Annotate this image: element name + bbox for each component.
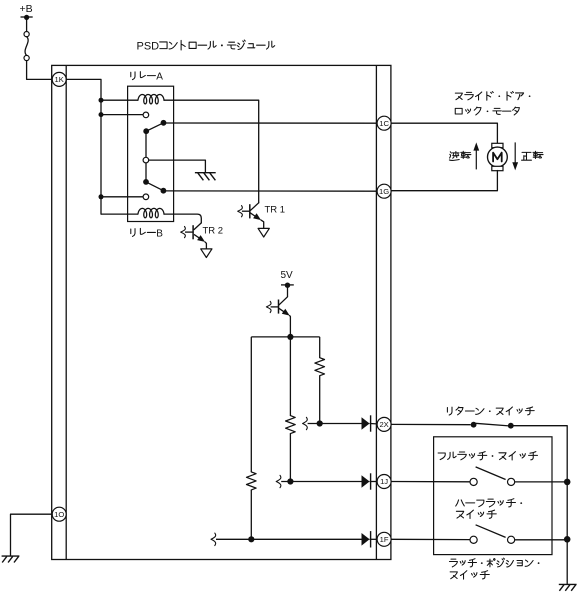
wire from 1K down left bus <box>66 79 101 214</box>
svg-text:5V: 5V <box>281 270 294 281</box>
forward label 正転 <box>522 152 532 160</box>
forward down arrow <box>514 142 516 163</box>
wire 5V to transistor <box>287 285 289 297</box>
wire 1J to full latch switch <box>391 481 470 483</box>
diode D3 <box>362 533 370 546</box>
relay A contact terminal <box>143 112 149 118</box>
svg-text:1J: 1J <box>380 477 388 486</box>
return switch label <box>447 407 452 415</box>
relay B label <box>131 229 135 237</box>
resistor R2 (middle branch) <box>289 337 291 416</box>
ground chassis bottom right <box>559 583 577 585</box>
wire to 1K <box>27 61 53 80</box>
node junction <box>99 112 104 117</box>
slide door lock motor label <box>455 93 462 100</box>
relay A movable arm <box>146 123 163 131</box>
relay B movable arm <box>146 182 163 191</box>
connector pin 1G <box>377 184 391 198</box>
wire to diode D3 <box>216 538 362 540</box>
half latch switch label <box>456 500 465 506</box>
transistor Q3 (unlabelled) <box>279 297 288 305</box>
svg-text:1C: 1C <box>379 119 389 128</box>
node junction <box>99 194 104 199</box>
return switch contact node <box>508 423 514 429</box>
svg-text:PSD: PSD <box>137 41 160 53</box>
wire half latch to rail <box>515 539 568 541</box>
wire pivot to 1C <box>164 122 378 124</box>
ground chassis inside module <box>195 172 216 174</box>
node junction R3 bottom <box>248 536 254 542</box>
svg-text:A: A <box>156 72 163 83</box>
full latch switch arm (open) <box>476 467 506 480</box>
relay assembly box <box>128 86 174 221</box>
node junction rail <box>564 536 571 543</box>
wire motor to 1G <box>391 171 497 191</box>
resistor R1 (right branch) <box>319 337 321 358</box>
wire continuation mark 1F row <box>211 533 216 545</box>
svg-text:TR 2: TR 2 <box>203 225 224 236</box>
full latch switch label <box>438 453 445 460</box>
connector pin 1O <box>52 507 66 521</box>
relay B contact terminal <box>143 194 149 200</box>
wire 2X to return switch <box>391 423 471 425</box>
full latch switch contact <box>508 478 515 485</box>
diode D1 <box>362 417 370 430</box>
svg-text:+B: +B <box>20 3 33 15</box>
reverse label 逆転 <box>449 152 459 161</box>
diode D2 <box>362 475 370 488</box>
resistor R3 (left branch) <box>250 337 252 472</box>
wire pivot to 1G <box>163 190 377 192</box>
relay B coil <box>101 213 138 215</box>
svg-text:TR 1: TR 1 <box>265 205 286 216</box>
node junction R2 bottom <box>287 478 293 484</box>
connector terminal <box>24 55 29 60</box>
connector pin 1J <box>377 475 391 489</box>
return switch arm (closed) <box>474 423 510 426</box>
motor M1 <box>492 143 503 147</box>
ground (open triangle) TR1 emitter <box>258 228 269 237</box>
relay A coil <box>101 99 138 101</box>
module connector strip right inner line <box>375 65 377 559</box>
wire coil A to TR1 collector <box>164 100 259 203</box>
half latch switch contact <box>508 536 515 543</box>
connector pin 1K <box>52 72 66 86</box>
relay B pivot node <box>161 188 167 194</box>
svg-text:2X: 2X <box>379 420 388 429</box>
half latch switch contact <box>470 536 477 543</box>
relay A label <box>131 72 135 80</box>
wire arm to common terminal <box>145 131 147 157</box>
wire to relay B contact <box>101 196 143 198</box>
connector pin 2X <box>377 417 391 431</box>
wire to diode D2 <box>281 481 361 483</box>
node junction <box>143 128 149 134</box>
svg-text:1F: 1F <box>380 535 389 544</box>
ground (open triangle) TR2 emitter <box>201 249 212 258</box>
wire 1C to motor <box>391 123 497 143</box>
node junction rail <box>564 479 571 486</box>
wire coil B to TR2 collector <box>164 214 201 223</box>
svg-text:1G: 1G <box>379 187 389 196</box>
relay A common pivot node <box>161 120 167 126</box>
connector pin 1C <box>377 116 391 130</box>
wire common to relay B arm <box>145 163 147 182</box>
module connector strip left inner line <box>65 65 67 559</box>
PSD control module box <box>52 65 391 559</box>
full latch switch contact <box>470 478 477 485</box>
wire continuation mark 2X row <box>303 417 308 429</box>
reverse up arrow <box>475 150 477 170</box>
wire full latch to rail <box>515 481 568 483</box>
latch position switch box <box>434 437 552 555</box>
wire to diode D1 <box>308 423 362 425</box>
node junction <box>143 179 149 185</box>
connector pin 1F <box>377 532 391 546</box>
node junction emitter bus <box>287 334 293 340</box>
fusible link wavy wire <box>25 37 28 56</box>
wire 1F to half latch switch <box>391 538 470 540</box>
node junction R1 bottom <box>317 420 323 426</box>
half latch switch arm (open) <box>476 525 506 538</box>
ground chassis bottom left <box>2 555 20 557</box>
connector terminal <box>24 31 29 36</box>
wire 1O to ground <box>11 514 53 556</box>
wire common to ground <box>149 160 206 173</box>
transistor Q TR2 <box>194 223 201 230</box>
wire return switch to ground rail <box>511 426 567 585</box>
transistor Q TR1 <box>250 203 259 211</box>
wire continuation mark 1J row <box>276 475 281 487</box>
svg-text:B: B <box>156 229 163 240</box>
wire to relay A contact <box>101 114 143 116</box>
svg-text:1K: 1K <box>55 75 64 84</box>
latch position switch label <box>449 559 457 567</box>
relay common terminal <box>143 157 149 163</box>
svg-text:1O: 1O <box>54 510 64 519</box>
node junction <box>99 98 104 103</box>
wire <box>26 17 28 31</box>
wire bus horizontal <box>251 336 319 338</box>
return switch contact node <box>471 422 477 428</box>
